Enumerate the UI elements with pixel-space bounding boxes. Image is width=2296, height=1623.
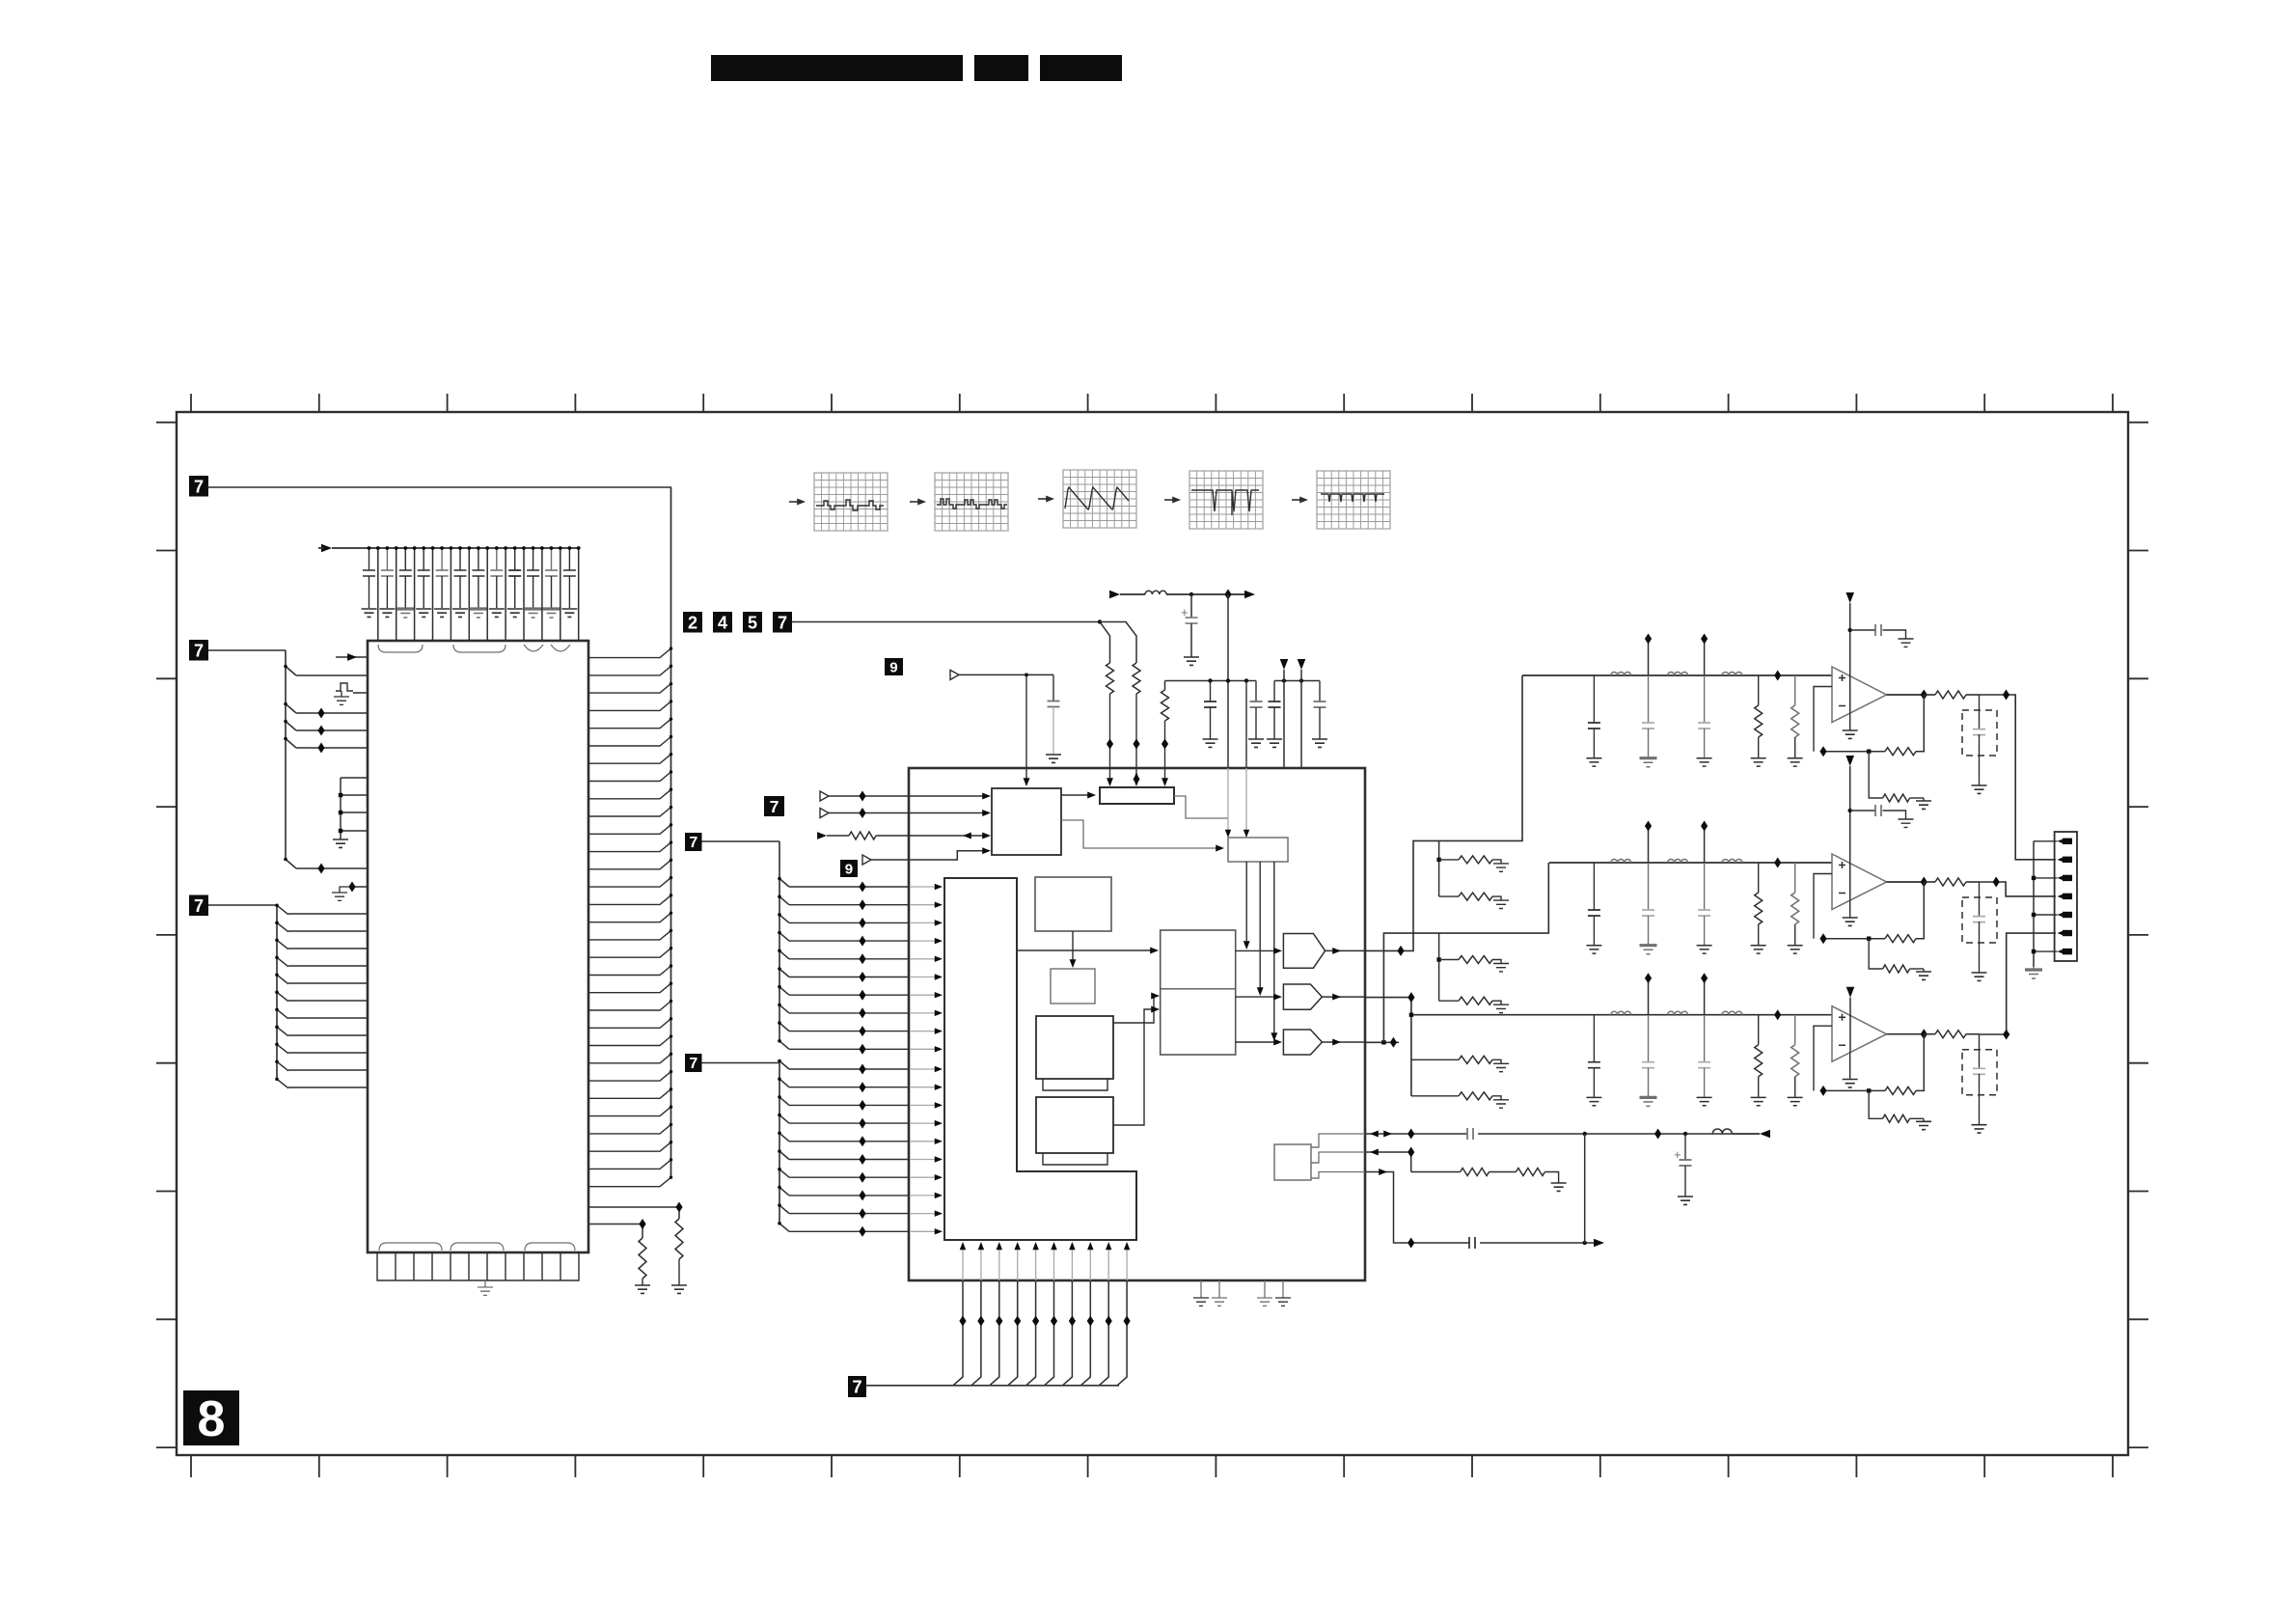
junction diamond aux1 a bbox=[1408, 1129, 1414, 1140]
junction diamond bbox=[1397, 946, 1404, 956]
wire feedback U3 bbox=[1814, 1026, 1924, 1090]
wire RGB filter line channel 3 bbox=[1411, 1014, 1832, 1016]
supply arrow pin 2 into IC bbox=[1298, 659, 1306, 768]
title bar block 2 bbox=[974, 55, 1028, 81]
ground of C32 bbox=[1640, 1096, 1657, 1099]
wire net 9b to sync block bbox=[871, 847, 991, 860]
resistor R-a to IC 7300 bbox=[1107, 663, 1114, 694]
arrow into waveform thumbnail 3 bbox=[1038, 498, 1052, 500]
wire RGB filter line channel 2 bbox=[1549, 862, 1832, 864]
oscilloscope waveform thumbnail 5 bbox=[1317, 471, 1390, 529]
wire RAM block to DAC block bbox=[1017, 948, 1159, 954]
page reference label 7 (left, third) bbox=[189, 895, 208, 917]
ground under IC 7200 bottom pin row bbox=[478, 1280, 493, 1295]
wire bus from label 7 to IC 7200 upper-left pins bbox=[208, 650, 296, 868]
ground stubs under IC 7300 bbox=[1193, 1280, 1291, 1306]
wire IC output 2 to channel 3 line bbox=[1365, 998, 1413, 1096]
ground of C21 bbox=[1586, 946, 1601, 953]
wire supply to arrow right bbox=[1191, 591, 1255, 599]
arrow into waveform thumbnail 2 bbox=[910, 501, 924, 503]
junction diamond sync input 1 bbox=[859, 791, 865, 802]
inductor filter L23 bbox=[1722, 860, 1742, 863]
ground of bias resistor bbox=[1493, 964, 1509, 972]
ground of C33 bbox=[1697, 1097, 1712, 1105]
arrow end aux1 bbox=[1760, 1130, 1770, 1139]
junction bbox=[1867, 937, 1871, 941]
wire sync input 1 bbox=[829, 793, 991, 800]
wire block C to DAC block bbox=[1113, 993, 1160, 1023]
resistor aux2 a bbox=[1461, 1169, 1490, 1176]
wire IC 7200 top pin 10 bbox=[540, 546, 544, 641]
resistor R-b to IC 7300 bbox=[1133, 663, 1140, 694]
wire IC 7200 top pin 12 bbox=[577, 546, 581, 641]
ground of bias resistor bbox=[1493, 1004, 1509, 1012]
ground of spark gap 2 bbox=[1972, 973, 1987, 980]
page reference label 4 bbox=[713, 612, 732, 633]
ground of R22 bbox=[1788, 946, 1803, 953]
resistor bias to ground bbox=[1439, 893, 1501, 900]
junction diamond aux1 b bbox=[1654, 1129, 1661, 1140]
ground of bias resistor bbox=[1493, 1063, 1509, 1071]
resistor output R2s bbox=[1924, 878, 1979, 886]
page reference label 7 (video bus upper) bbox=[685, 833, 702, 851]
wire resistor 3xx1 to ground bbox=[678, 1259, 680, 1285]
junction diamond on channel 1 line bbox=[1774, 671, 1781, 681]
svg-text:2: 2 bbox=[688, 613, 697, 632]
wire aux net 1 (filament feed) bbox=[1311, 1131, 1760, 1147]
ground of bias R1b bbox=[1916, 801, 1931, 809]
wire IC 7200 pin to resistor 3xx1 bbox=[588, 1207, 679, 1219]
input triangle sync input 2 bbox=[820, 809, 829, 818]
junction diamond bbox=[1107, 739, 1113, 750]
ground bbox=[1203, 739, 1218, 747]
wire DAC to buffer 3 bbox=[1236, 1039, 1282, 1046]
sync block inside IC 7300 bbox=[992, 788, 1061, 855]
arrow into waveform thumbnail 1 bbox=[789, 501, 804, 503]
resistor aux2 b bbox=[1516, 1169, 1544, 1176]
pulse symbol at IC 7200 left pin 3 bbox=[334, 683, 368, 704]
junction diamonds on video input bundle bbox=[859, 882, 865, 1237]
ground aux2 bbox=[1551, 1183, 1567, 1191]
ground pin IC 7200 left pin 10 bbox=[332, 882, 368, 901]
control block inside IC 7300 bbox=[1228, 838, 1288, 862]
junction bbox=[1867, 750, 1871, 754]
ground of spark gap 1 bbox=[1972, 785, 1987, 793]
wire RGB filter line channel 1 bbox=[1522, 674, 1832, 676]
electrolytic capacitor aux1 bbox=[1674, 1134, 1692, 1197]
decoupling branch of U1 bbox=[1848, 624, 1906, 639]
wire IC output 3 to channel 2 line bbox=[1365, 863, 1548, 1045]
spark gap 1xx3 (dashed) bbox=[1962, 1034, 1997, 1125]
inductor 5xx1 supply bbox=[1120, 591, 1191, 594]
junction diamond bbox=[1993, 877, 2000, 888]
wire IC 7200 top pin 4 bbox=[431, 546, 435, 641]
capacitor on net 9a bbox=[1048, 674, 1060, 754]
ground of ladder strap bbox=[333, 839, 348, 847]
resistor bias to ground bbox=[1411, 1056, 1501, 1063]
spark gap 1xx2 (dashed) bbox=[1962, 882, 1997, 973]
capacitor series aux3 bbox=[1469, 1237, 1480, 1249]
capacitor filter C21 bbox=[1588, 863, 1600, 945]
capacitor on rail B right bbox=[1314, 681, 1326, 740]
pin-group bracket top 3 bbox=[524, 645, 543, 651]
decoupling capacitor bank C3 bbox=[396, 546, 414, 618]
wire sync input 2 bbox=[829, 810, 991, 816]
ground of C12 bbox=[1640, 756, 1657, 759]
capacitor filter C23 bbox=[1698, 863, 1710, 945]
junction diamond on pin 9 bbox=[317, 864, 324, 874]
page reference label 7 (video bus lower) bbox=[685, 1054, 702, 1072]
junction diamond bbox=[1133, 739, 1139, 750]
wire DAC to buffer 2 bbox=[1236, 994, 1282, 1001]
wire bundle video inputs into RAM block bbox=[789, 884, 943, 1235]
page reference label 2 bbox=[683, 612, 702, 633]
capacitor filter C32 bbox=[1642, 1015, 1654, 1097]
wire loop under block D bbox=[1043, 1153, 1107, 1165]
wire channel 1 output to connector pin 2 bbox=[1980, 695, 2057, 860]
wire register block to control block bbox=[1174, 796, 1228, 818]
junction diamonds on bottom pin bundle bbox=[959, 1316, 1130, 1327]
resistor termination R12 bbox=[1791, 675, 1799, 757]
wire IC 7200 top pin 2 bbox=[395, 546, 398, 641]
capacitor filter C12 bbox=[1642, 675, 1654, 757]
capacitor filter C31 bbox=[1588, 1015, 1600, 1097]
junction diamond U3 output bbox=[1921, 1029, 1927, 1039]
wire IC 7200 top pin 3 bbox=[413, 546, 417, 641]
resistor feedback R3f bbox=[1885, 1087, 1916, 1094]
resistor on sync input 3 bbox=[827, 832, 876, 839]
ground of electrolytic aux1 bbox=[1678, 1197, 1693, 1204]
inductor filter L12 bbox=[1668, 673, 1688, 675]
inductor filter L31 bbox=[1611, 1011, 1631, 1015]
supply stub diamond above channel 2-1 bbox=[1645, 821, 1652, 864]
capacitor filter C11 bbox=[1588, 675, 1600, 757]
wire stub to resistor pair bbox=[1436, 840, 1440, 896]
page reference label 5 bbox=[743, 612, 762, 633]
wire IC 7200 top pin 9 bbox=[522, 546, 526, 641]
ground of C13 bbox=[1697, 758, 1712, 766]
wire bundle IC 7300 bottom pins bbox=[953, 1242, 1130, 1386]
wire IC 7200 left pin 5 bbox=[296, 729, 368, 731]
op-amp U3 bbox=[1832, 1006, 1887, 1062]
arrow into waveform thumbnail 4 bbox=[1164, 499, 1179, 501]
ground of R32 bbox=[1788, 1097, 1803, 1105]
junction diamond on pin 4 bbox=[317, 708, 324, 719]
capacitor on rail A mid bbox=[1204, 681, 1216, 740]
ground of connector bbox=[2025, 968, 2042, 971]
junction diamond supply bbox=[1224, 590, 1231, 600]
wire IC 7200 top pin 11 bbox=[559, 546, 562, 641]
oscilloscope waveform thumbnail 2 bbox=[935, 473, 1008, 531]
ground of spark gap 3 bbox=[1972, 1125, 1987, 1133]
resistor bias to ground bbox=[1439, 956, 1501, 964]
wire bus bottom pins to label 7 bbox=[866, 1385, 1119, 1387]
pin-group bracket bottom 1 bbox=[379, 1243, 442, 1251]
pin-group bracket top 1 bbox=[378, 645, 423, 652]
ground under U2 bbox=[1843, 898, 1858, 925]
wire channel 2 output to connector pin 4 bbox=[1980, 882, 2057, 896]
ground of R21 bbox=[1751, 946, 1766, 953]
resistor bias R3b bbox=[1869, 1090, 1924, 1122]
output buffer 3 inside IC 7300 bbox=[1283, 1030, 1322, 1055]
decoupling capacitor bank C8 bbox=[489, 546, 505, 617]
resistor bias to ground bbox=[1411, 1092, 1501, 1100]
inductor filter L13 bbox=[1722, 673, 1742, 675]
resistor on rail A bbox=[1162, 681, 1169, 722]
inductor filter L22 bbox=[1668, 860, 1688, 863]
supply arrow pin 1 into IC bbox=[1280, 659, 1289, 768]
wire connector ground bus bbox=[2032, 841, 2058, 969]
pin-group bracket bottom 3 bbox=[525, 1243, 575, 1251]
wire aux net 2 (to resistor divider) bbox=[1311, 1149, 1461, 1172]
capacitor on rail A end bbox=[1250, 681, 1263, 740]
junction diamond bbox=[1390, 1037, 1397, 1048]
wire aux net 3 (return) bbox=[1311, 1134, 1604, 1247]
page reference label 7 (bottom) bbox=[848, 1376, 866, 1397]
arrow supply feed bbox=[1109, 591, 1120, 599]
wire resistor 3xx2 to ground bbox=[642, 1279, 643, 1285]
sheet number label 8 bbox=[183, 1390, 239, 1447]
wire U3 output bbox=[1887, 1033, 1925, 1035]
wire resistor R-a into IC bbox=[1107, 694, 1113, 786]
wire bus 7 to video input fan lower bbox=[702, 1059, 790, 1232]
resistor feedback R1f bbox=[1885, 748, 1916, 756]
logic block A inside IC 7300 bbox=[1035, 877, 1111, 931]
connector 0365 CRT panel bbox=[2055, 832, 2077, 961]
junction diamond feedback bbox=[1819, 933, 1826, 944]
arrow into waveform thumbnail 5 bbox=[1292, 499, 1306, 501]
wire bus from label 7 to IC 7200 lower-left pins bbox=[208, 904, 288, 1088]
junction diamond feedback bbox=[1819, 1086, 1826, 1096]
wire net 9a to sync block bbox=[959, 674, 1053, 787]
wire feedback U2 bbox=[1814, 874, 1924, 939]
page reference label 9 (first) bbox=[885, 658, 903, 675]
supply stub diamond above channel 2-2 bbox=[1701, 821, 1708, 864]
wire buffer 3 output bbox=[1322, 1039, 1365, 1046]
wire IC 7200 top pin 7 bbox=[485, 546, 489, 641]
junction diamond sync input 2 bbox=[859, 808, 865, 818]
wire buffer 2 output bbox=[1322, 994, 1365, 1001]
wire control block to buffer 2 bbox=[1257, 862, 1264, 996]
ground of C11 bbox=[1586, 758, 1601, 766]
junction bbox=[1867, 1088, 1871, 1092]
capacitor on rail B left bbox=[1269, 681, 1281, 740]
interface block inside IC 7300 (bottom right) bbox=[1274, 1144, 1319, 1180]
title bar block 3 bbox=[1040, 55, 1122, 81]
inductor filter L33 bbox=[1722, 1011, 1742, 1015]
ground of capacitor net 9a bbox=[1046, 755, 1061, 762]
supply arrow for U3 bbox=[1846, 987, 1855, 1051]
junction diamond U1 output bbox=[1921, 690, 1927, 701]
op-amp U1 bbox=[1832, 667, 1887, 723]
resistor bias to ground bbox=[1439, 856, 1501, 864]
output buffer 2 inside IC 7300 bbox=[1283, 984, 1322, 1009]
svg-text:9: 9 bbox=[889, 659, 897, 675]
page reference label 7 (left, second) bbox=[189, 640, 208, 661]
ground of resistor 3xx2 bbox=[635, 1285, 650, 1293]
junction diamond bbox=[2003, 690, 2009, 701]
oscilloscope waveform thumbnail 3 bbox=[1063, 470, 1136, 528]
svg-text:7: 7 bbox=[689, 1056, 697, 1072]
oscilloscope waveform thumbnail 1 bbox=[814, 473, 888, 531]
arrow input sync input 3 bbox=[817, 832, 827, 839]
register block inside IC 7300 bbox=[1100, 787, 1174, 804]
ground of bias resistor bbox=[1493, 864, 1509, 871]
wire DAC to buffer 1 bbox=[1236, 948, 1282, 954]
decoupling capacitor bank C12 bbox=[561, 546, 577, 617]
ground of decoupling branch U2 bbox=[1899, 819, 1914, 827]
resistor bias R2b bbox=[1869, 939, 1924, 973]
wire block D to DAC block bbox=[1113, 1006, 1160, 1125]
resistor feedback R2f bbox=[1885, 935, 1916, 943]
ground of decoupling branch U1 bbox=[1899, 639, 1914, 646]
IC 7200 bottom pin row bbox=[377, 1252, 579, 1280]
decoupling capacitor bank C11 bbox=[543, 546, 560, 618]
svg-text:7: 7 bbox=[770, 797, 779, 816]
ground of bias resistor bbox=[1493, 1100, 1509, 1108]
junction diamond bbox=[639, 1219, 645, 1229]
wire U1 output bbox=[1887, 694, 1925, 696]
inductor filter L32 bbox=[1668, 1011, 1688, 1015]
ground of R31 bbox=[1751, 1097, 1766, 1105]
arrow input pin, IC 7200 left pin 1 bbox=[336, 653, 368, 661]
resistor termination R22 bbox=[1791, 863, 1799, 945]
wire from label 7 to right-side pin bus bbox=[207, 486, 671, 488]
ladder strap pins IC 7200 left bbox=[339, 778, 368, 839]
inductor filter L11 bbox=[1611, 673, 1631, 675]
resistor output R1s bbox=[1924, 691, 1979, 699]
decoupling capacitor bank C5 bbox=[434, 546, 450, 617]
svg-text:7: 7 bbox=[194, 896, 204, 916]
wire aux2 to ground bbox=[1544, 1172, 1558, 1184]
pin-group bracket bottom 2 bbox=[451, 1243, 504, 1251]
wire IC 7200 top pin 6 bbox=[467, 546, 471, 641]
logic block D inside IC 7300 bbox=[1036, 1097, 1113, 1153]
ground of R11 bbox=[1751, 758, 1766, 766]
decoupling capacitor bank C2 bbox=[379, 546, 395, 617]
pin-group bracket top 4 bbox=[551, 645, 570, 651]
junction diamond on channel 3 line bbox=[1774, 1009, 1781, 1020]
supply stub diamond above channel 3-1 bbox=[1645, 973, 1652, 1014]
IC 7200 main processor body bbox=[368, 641, 588, 1252]
svg-text:8: 8 bbox=[198, 1391, 226, 1447]
IC 7300 video processor body bbox=[909, 768, 1365, 1280]
junction diamond bbox=[2003, 1030, 2009, 1040]
page reference label 7 (row) bbox=[773, 612, 792, 633]
junction diamond bbox=[1408, 992, 1414, 1003]
ground under U3 bbox=[1843, 1051, 1858, 1087]
supply stub diamond above channel 1-1 bbox=[1645, 634, 1652, 676]
capacitor series aux1 bbox=[1467, 1128, 1478, 1140]
drawing border frame bbox=[156, 394, 2148, 1477]
RAM array block inside IC 7300 (L-shape) bbox=[944, 878, 1136, 1240]
ground of C22 bbox=[1640, 944, 1657, 947]
wire IC 7200 left pin 9 bbox=[296, 867, 368, 869]
oscilloscope waveform thumbnail 4 bbox=[1189, 471, 1263, 529]
decoupling branch of U2 bbox=[1848, 805, 1906, 819]
ground of resistor 3xx1 bbox=[671, 1285, 687, 1293]
resistor termination R32 bbox=[1791, 1015, 1799, 1097]
ground of bias resistor bbox=[1493, 900, 1509, 908]
supply rail segment B bbox=[1274, 678, 1320, 682]
wire control block to buffer 1 bbox=[1244, 862, 1250, 949]
wire U2 output bbox=[1887, 881, 1925, 883]
inductor aux1 bbox=[1712, 1129, 1732, 1134]
inductor filter L21 bbox=[1611, 860, 1631, 863]
resistor termination R21 bbox=[1755, 863, 1763, 945]
logic block C inside IC 7300 bbox=[1036, 1016, 1113, 1079]
junction diamond on pin 5 bbox=[317, 726, 324, 736]
svg-text:7: 7 bbox=[194, 477, 204, 496]
decoupling capacitor bank C9 bbox=[507, 546, 523, 617]
logic block B inside IC 7300 bbox=[1051, 969, 1095, 1004]
supply arrow for U2 bbox=[1845, 756, 1854, 898]
ground bbox=[1312, 739, 1327, 747]
decoupling capacitor bank C1 bbox=[362, 546, 377, 617]
resistor output R3s bbox=[1924, 1031, 1979, 1038]
output buffer 1 inside IC 7300 bbox=[1283, 934, 1325, 969]
electrolytic capacitor 2xx1 bbox=[1181, 594, 1198, 657]
wire IC 7200 left pin 4 bbox=[296, 712, 368, 714]
svg-text:7: 7 bbox=[778, 613, 787, 632]
junction dot supply bbox=[1189, 592, 1193, 596]
capacitor filter C22 bbox=[1642, 863, 1654, 945]
ground of bias R3b bbox=[1916, 1121, 1931, 1129]
junction diamond bbox=[675, 1202, 682, 1213]
supply rail segment A bbox=[1165, 678, 1257, 682]
page reference label 7 (top left) bbox=[189, 476, 208, 497]
DAC block inside IC 7300 (two sections) bbox=[1161, 930, 1236, 1055]
decoupling capacitor bank C10 bbox=[525, 546, 542, 618]
wire IC output 1 to channel 1 bbox=[1365, 675, 1522, 950]
resistor bias to ground bbox=[1439, 997, 1501, 1004]
wire IC 7200 top pin 8 bbox=[504, 546, 507, 641]
wire resistor R-b into IC bbox=[1134, 694, 1140, 786]
svg-text:9: 9 bbox=[845, 861, 853, 877]
wire sync block to register block bbox=[1061, 792, 1096, 799]
wire sync input 3 to block bbox=[876, 833, 991, 839]
wire channel 3 output to connector pin 6 bbox=[1980, 933, 2057, 1034]
spark gap 1xx1 (dashed) bbox=[1962, 695, 1997, 785]
ground of bias R2b bbox=[1916, 972, 1931, 979]
wire between aux2 resistors bbox=[1490, 1171, 1517, 1173]
junction diamond on pin 6 bbox=[317, 743, 324, 754]
wire fan IC 7200 right-side pins to bus bbox=[588, 487, 672, 1187]
op-amp U2 bbox=[1832, 854, 1887, 910]
wire IC 7200 pin to resistor 3xx2 bbox=[588, 1224, 642, 1239]
wire bus 7 to video input fan upper bbox=[702, 841, 790, 1049]
svg-text:7: 7 bbox=[689, 835, 697, 851]
svg-text:7: 7 bbox=[852, 1377, 861, 1397]
resistor termination R31 bbox=[1755, 1015, 1763, 1097]
wire block A to block B bbox=[1070, 931, 1077, 968]
input triangle of net 9b bbox=[862, 855, 871, 865]
resistor 3xx1 bbox=[675, 1219, 683, 1259]
ground of C31 bbox=[1586, 1097, 1601, 1105]
wire supply drop into IC 7300 bbox=[1227, 594, 1229, 768]
capacitor filter C13 bbox=[1698, 675, 1710, 757]
input triangle of net 9a bbox=[950, 670, 959, 679]
wire feedback U1 bbox=[1814, 687, 1924, 752]
resistor bias R1b bbox=[1869, 752, 1924, 802]
input triangle sync input 1 bbox=[820, 791, 829, 801]
wire IC 7200 top pin 1 bbox=[376, 546, 380, 641]
wire bundle IC 7200 left lower pins bbox=[288, 914, 368, 1087]
wire buffer 1 output bbox=[1326, 948, 1365, 954]
junction diamond feedback bbox=[1819, 746, 1826, 756]
junction diamond on channel 2 line bbox=[1774, 858, 1781, 868]
wire IC 7200 left pin 2 bbox=[296, 674, 368, 676]
